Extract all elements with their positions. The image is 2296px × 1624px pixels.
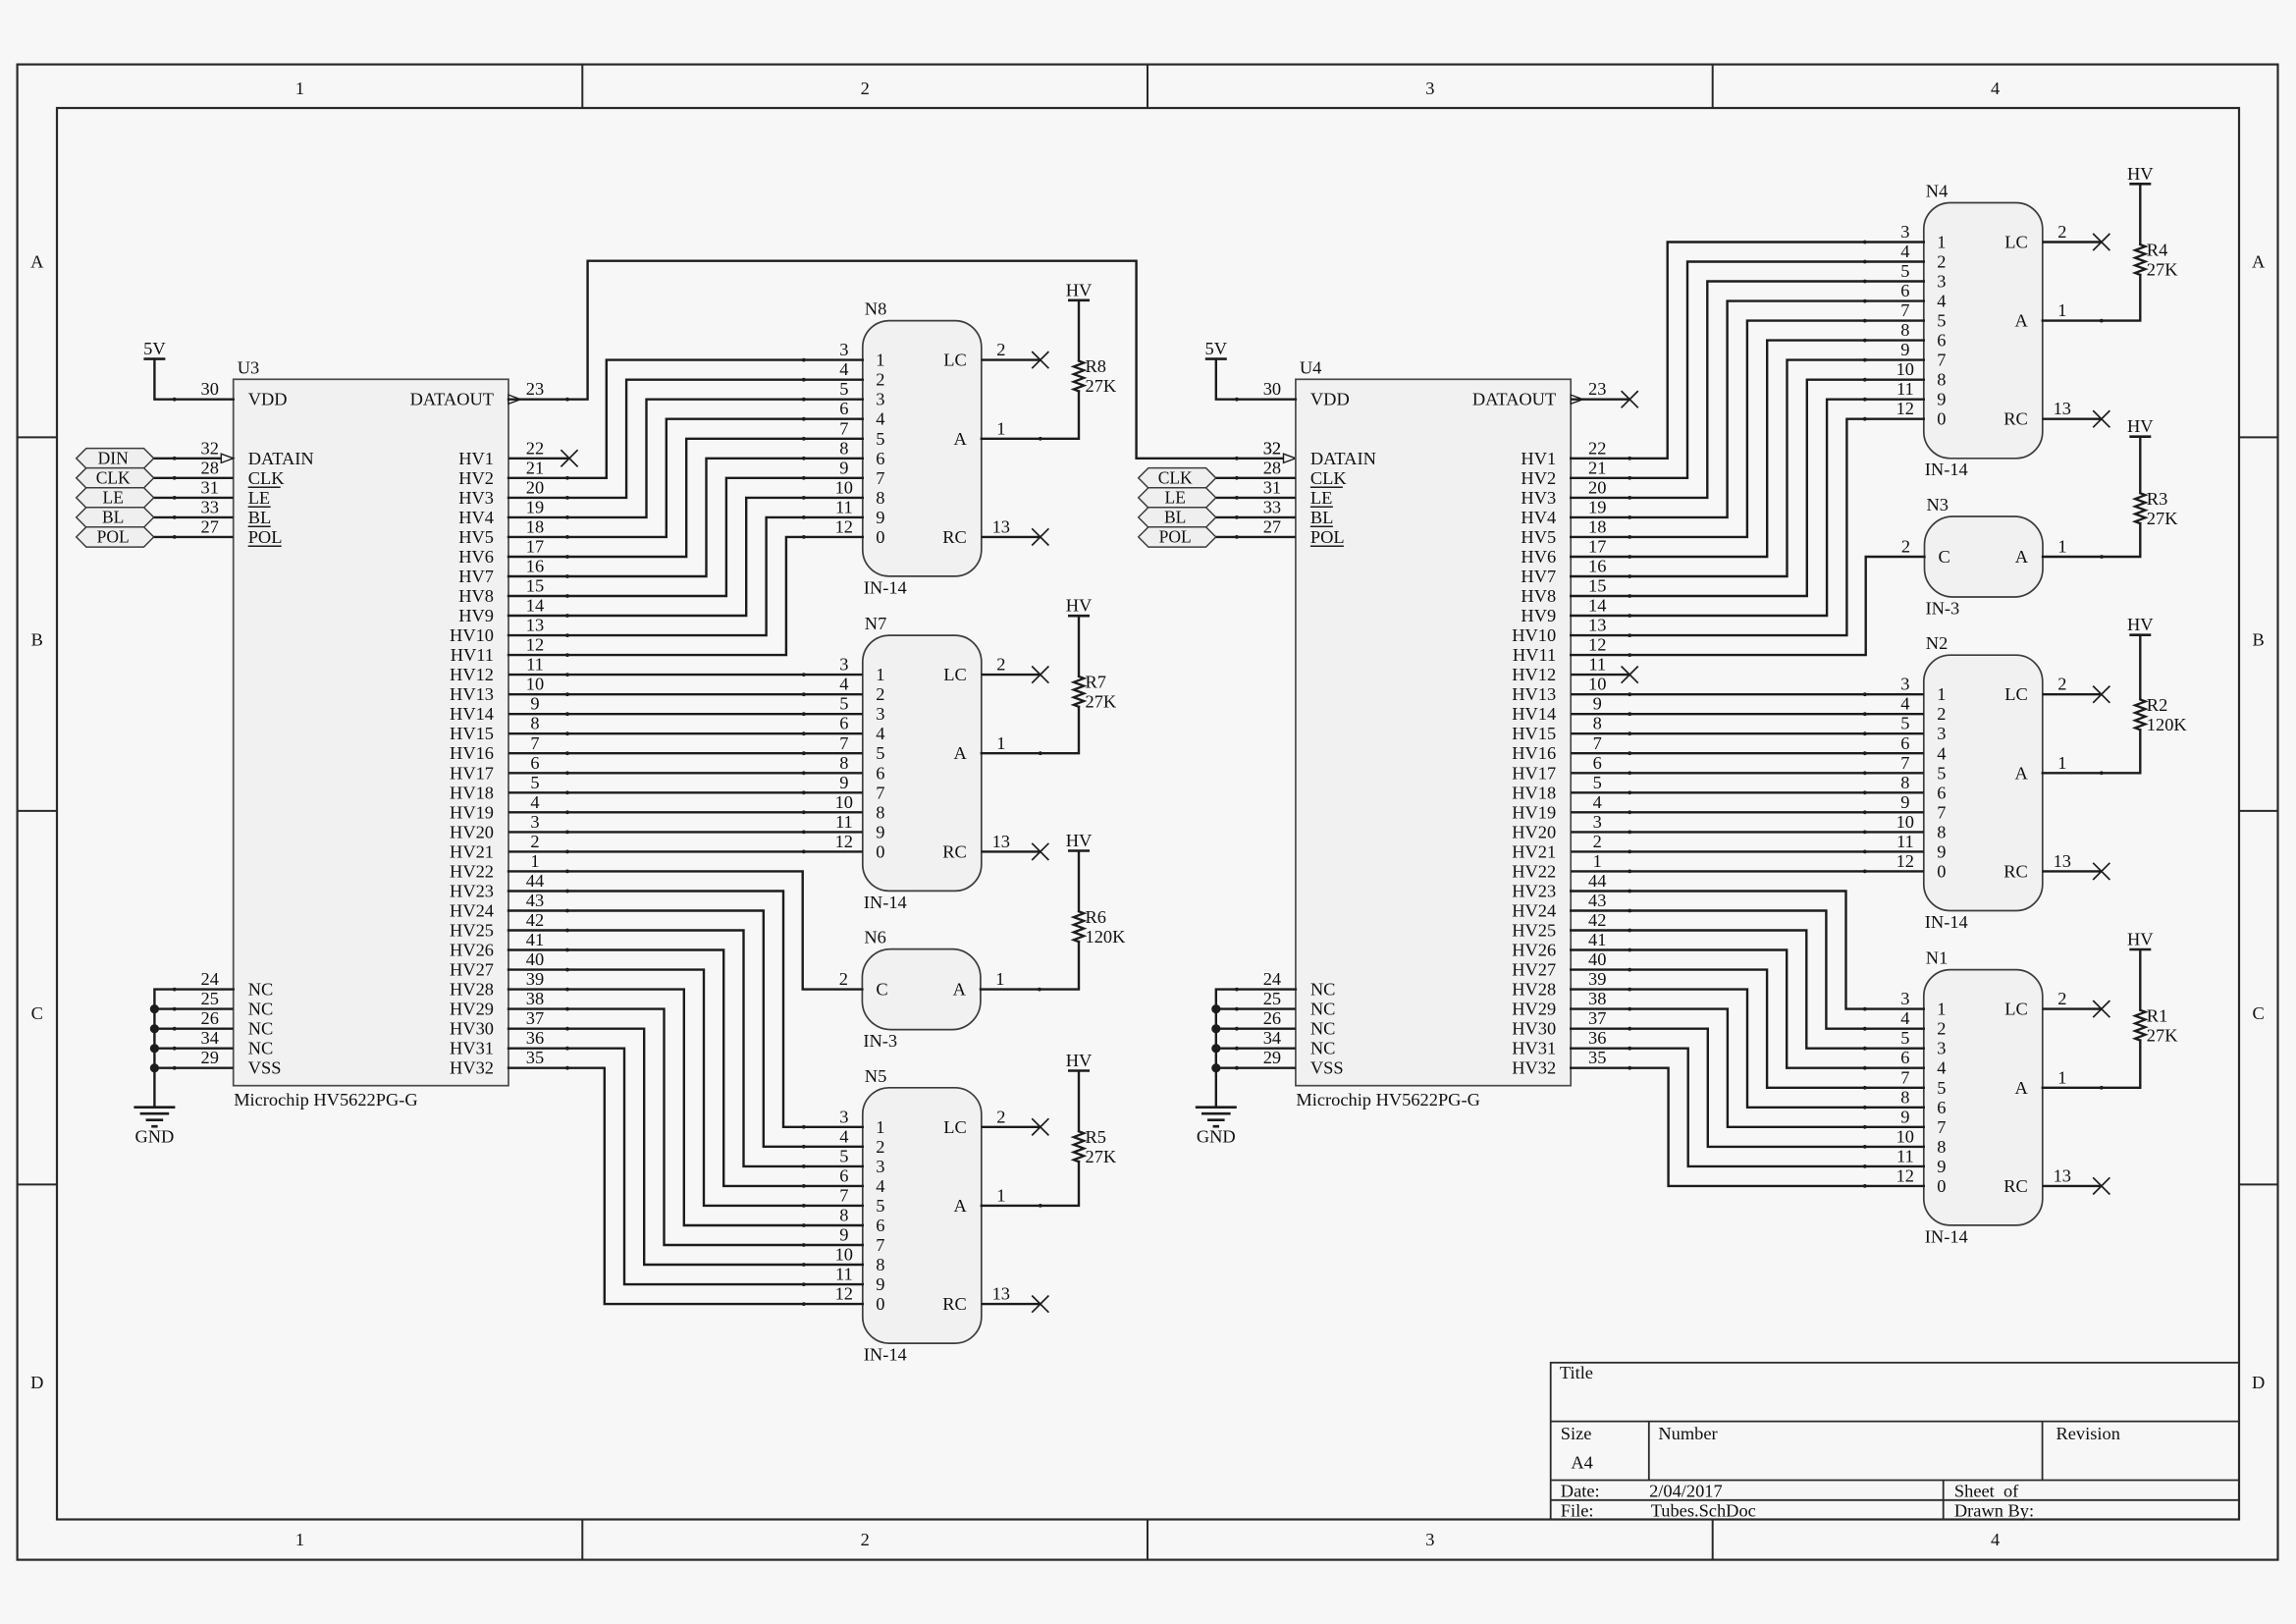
nixie tube N1 IN-14 body (1924, 970, 2043, 1225)
wire U4 HV17 to N2 cathode 7 (1571, 772, 1924, 774)
svg-text:HV29: HV29 (1512, 1000, 1556, 1019)
svg-text:U4: U4 (1300, 357, 1321, 377)
svg-text:8: 8 (876, 802, 884, 822)
svg-text:HV11: HV11 (451, 645, 494, 665)
svg-text:1: 1 (996, 1185, 1005, 1205)
svg-text:12: 12 (1588, 635, 1606, 655)
svg-text:5: 5 (1900, 1028, 1909, 1048)
svg-text:HV27: HV27 (450, 960, 494, 980)
svg-text:VSS: VSS (1310, 1058, 1344, 1078)
wire U4 HV29 to N1 cathode 9 (1571, 1009, 1924, 1127)
wire U3 HV10 to N8 cathode 11 (508, 517, 863, 635)
neon bulb N3 IN-3 body (1925, 516, 2044, 597)
svg-text:A: A (30, 251, 44, 271)
svg-text:HV1: HV1 (458, 449, 494, 468)
svg-text:D: D (30, 1373, 43, 1392)
svg-text:9: 9 (876, 508, 884, 527)
svg-text:BL: BL (102, 508, 124, 527)
svg-text:4: 4 (1937, 1058, 1946, 1078)
wire U4 HV31 to N1 cathode 11 (1571, 1049, 1924, 1166)
svg-text:14: 14 (526, 596, 544, 616)
svg-text:HV: HV (2127, 164, 2154, 184)
svg-text:21: 21 (526, 458, 544, 477)
wire R5 to N5 anode A (982, 1162, 1079, 1206)
wire LE port to U4 LE (1216, 497, 1296, 499)
svg-text:HV13: HV13 (1512, 684, 1556, 704)
svg-text:Sheet of: Sheet of (1954, 1481, 2019, 1500)
junction (150, 1063, 159, 1072)
svg-text:26: 26 (201, 1008, 219, 1028)
svg-text:3: 3 (1937, 724, 1946, 743)
svg-text:HV7: HV7 (1521, 567, 1556, 586)
svg-text:17: 17 (1588, 537, 1606, 557)
svg-text:13: 13 (992, 832, 1010, 851)
svg-text:7: 7 (839, 1185, 848, 1205)
ground symbol GND for U3 (133, 1106, 175, 1109)
svg-text:Microchip HV5622PG-G: Microchip HV5622PG-G (1296, 1090, 1479, 1110)
svg-text:13: 13 (526, 616, 544, 635)
svg-text:29: 29 (201, 1048, 219, 1067)
svg-text:N5: N5 (865, 1066, 886, 1086)
svg-text:37: 37 (1588, 1008, 1606, 1028)
svg-text:6: 6 (876, 449, 884, 468)
wire U3 HV14 to N7 cathode 5 (508, 713, 863, 715)
svg-text:POL: POL (1159, 527, 1192, 547)
svg-text:2: 2 (839, 969, 848, 989)
svg-text:7: 7 (876, 783, 884, 802)
neon bulb N6 IN-3 body (862, 949, 981, 1030)
svg-text:5: 5 (839, 694, 848, 714)
wire U4 HV32 to N1 cathode 12 (1571, 1068, 1924, 1186)
svg-text:27K: 27K (2147, 1025, 2178, 1045)
svg-text:HV25: HV25 (450, 921, 494, 941)
svg-text:1: 1 (1937, 684, 1946, 704)
wire POL port to U4 POL (1216, 536, 1296, 538)
wire U3 HV26 to N5 cathode 6 (508, 950, 863, 1186)
svg-text:6: 6 (530, 753, 539, 773)
svg-text:2: 2 (996, 340, 1005, 359)
wire U4 HV23 to N1 cathode 3 (1571, 892, 1924, 1009)
svg-text:3: 3 (530, 812, 539, 832)
svg-text:HV21: HV21 (450, 841, 494, 861)
svg-text:CLK: CLK (96, 468, 131, 488)
svg-text:HV: HV (1066, 1051, 1093, 1070)
svg-text:IN-3: IN-3 (1926, 599, 1960, 619)
svg-text:5: 5 (1593, 773, 1602, 792)
svg-text:9: 9 (530, 694, 539, 714)
svg-text:18: 18 (1588, 516, 1606, 536)
svg-text:IN-14: IN-14 (1925, 460, 1968, 479)
svg-text:HV9: HV9 (1521, 606, 1556, 625)
svg-text:POL: POL (97, 527, 130, 547)
svg-text:HV6: HV6 (458, 547, 494, 567)
wire R3 to N3 anode A (2043, 523, 2140, 557)
svg-text:HV10: HV10 (1512, 625, 1556, 645)
svg-text:3: 3 (1900, 675, 1909, 694)
wire U3 HV5 to N8 cathode 6 (508, 419, 863, 537)
svg-text:3: 3 (839, 340, 848, 359)
svg-text:38: 38 (1588, 989, 1606, 1008)
svg-text:35: 35 (1588, 1048, 1606, 1067)
svg-text:N7: N7 (865, 614, 886, 633)
svg-text:6: 6 (1900, 733, 1909, 753)
svg-text:3: 3 (1900, 222, 1909, 242)
svg-text:HV5: HV5 (458, 527, 494, 547)
svg-text:7: 7 (1900, 1067, 1909, 1087)
svg-text:1: 1 (876, 1117, 884, 1137)
svg-text:HV26: HV26 (450, 941, 494, 960)
svg-text:32: 32 (1263, 438, 1281, 458)
svg-text:NC: NC (1310, 1019, 1336, 1039)
wire U3 HV22 to N6 C (508, 871, 862, 989)
svg-text:8: 8 (1593, 714, 1602, 733)
wire LE port to U3 LE (154, 497, 234, 499)
svg-text:43: 43 (1588, 891, 1606, 910)
svg-text:7: 7 (1937, 802, 1946, 822)
nixie tube N7 IN-14 body (863, 635, 982, 891)
svg-text:29: 29 (1263, 1048, 1281, 1067)
svg-text:3: 3 (839, 655, 848, 675)
svg-text:C: C (31, 1003, 43, 1023)
wire U4 HV3 to N4 cathode 5 (1571, 282, 1924, 498)
wire U4 HV10 to N4 cathode 12 (1571, 419, 1924, 635)
wire U4 HV19 to N2 cathode 9 (1571, 811, 1924, 813)
wire R1 to N1 anode A (2043, 1041, 2141, 1088)
svg-text:0: 0 (876, 1294, 884, 1314)
svg-text:HV14: HV14 (450, 704, 494, 724)
svg-text:POL: POL (248, 527, 283, 547)
svg-text:5V: 5V (1205, 339, 1228, 358)
svg-text:11: 11 (1896, 1146, 1914, 1165)
svg-text:9: 9 (839, 1225, 848, 1245)
svg-text:3: 3 (839, 1107, 848, 1126)
svg-text:19: 19 (526, 497, 544, 516)
svg-text:HV31: HV31 (1512, 1039, 1556, 1058)
svg-text:5: 5 (876, 1196, 884, 1216)
svg-text:5: 5 (839, 1146, 848, 1165)
svg-text:HV9: HV9 (458, 606, 494, 625)
svg-text:6: 6 (1593, 753, 1602, 773)
svg-text:HV16: HV16 (1512, 743, 1556, 763)
wire U4 HV9 to N4 cathode 11 (1571, 400, 1924, 616)
wire U3 HV25 to N5 cathode 5 (508, 931, 863, 1166)
svg-text:8: 8 (876, 488, 884, 508)
port POL (77, 527, 154, 547)
svg-text:1: 1 (2057, 537, 2066, 557)
svg-text:8: 8 (1900, 320, 1909, 340)
svg-text:1: 1 (530, 851, 539, 871)
svg-text:HV: HV (1066, 831, 1093, 850)
svg-text:37: 37 (526, 1008, 544, 1028)
wire R4 to N4 anode A (2043, 275, 2141, 321)
svg-text:HV32: HV32 (1512, 1058, 1556, 1078)
svg-text:1: 1 (996, 733, 1005, 753)
svg-text:22: 22 (526, 438, 544, 458)
nixie tube N2 IN-14 body (1924, 655, 2043, 910)
svg-text:12: 12 (1896, 1165, 1914, 1185)
svg-text:120K: 120K (1086, 927, 1127, 947)
svg-text:9: 9 (1900, 1107, 1909, 1126)
svg-text:A: A (2015, 311, 2029, 331)
svg-text:IN-14: IN-14 (1925, 912, 1968, 932)
svg-text:30: 30 (201, 379, 219, 399)
svg-text:3: 3 (1900, 989, 1909, 1008)
svg-text:20: 20 (526, 477, 544, 497)
svg-text:4: 4 (876, 409, 884, 429)
svg-text:R3: R3 (2147, 489, 2167, 509)
svg-text:4: 4 (1593, 792, 1602, 812)
svg-text:0: 0 (876, 527, 884, 547)
resistor R3 27K (2139, 437, 2141, 494)
resistor R7 27K (1078, 616, 1080, 677)
svg-text:1: 1 (2057, 753, 2066, 773)
svg-text:13: 13 (992, 1284, 1010, 1304)
svg-text:C: C (2253, 1003, 2265, 1023)
svg-text:35: 35 (526, 1048, 544, 1067)
svg-text:5: 5 (530, 773, 539, 792)
wire U3 HV24 to N5 cathode 4 (508, 911, 863, 1147)
svg-text:HV24: HV24 (1512, 901, 1556, 921)
svg-text:HV15: HV15 (1512, 724, 1556, 743)
svg-text:12: 12 (526, 635, 544, 655)
svg-text:1: 1 (295, 1530, 304, 1549)
svg-text:8: 8 (1937, 370, 1946, 390)
wire U3 HV18 to N7 cathode 9 (508, 791, 863, 793)
svg-text:4: 4 (876, 1176, 884, 1196)
svg-text:HV8: HV8 (1521, 586, 1556, 606)
wire R6 to N6 anode A (981, 942, 1079, 990)
svg-text:2: 2 (2057, 222, 2066, 242)
wire U3 HV6 to N8 cathode 7 (508, 439, 863, 557)
svg-text:12: 12 (835, 832, 853, 851)
svg-text:HV17: HV17 (450, 763, 494, 783)
svg-text:8: 8 (530, 714, 539, 733)
svg-text:HV20: HV20 (450, 822, 494, 841)
svg-text:6: 6 (839, 1165, 848, 1185)
svg-text:39: 39 (526, 969, 544, 989)
svg-text:10: 10 (526, 675, 544, 694)
port LE (77, 488, 154, 508)
resistor R1 27K (2139, 949, 2141, 1010)
resistor R4 27K (2139, 184, 2141, 244)
svg-text:10: 10 (835, 792, 853, 812)
svg-text:B: B (2253, 629, 2265, 649)
svg-text:25: 25 (201, 989, 219, 1008)
svg-text:HV3: HV3 (1521, 488, 1556, 508)
wire U4 HV12 stub with no-connect X (1571, 674, 1629, 676)
svg-text:23: 23 (1588, 379, 1606, 399)
svg-text:8: 8 (876, 1255, 884, 1274)
port LE (U4) (1139, 488, 1216, 508)
svg-text:4: 4 (530, 792, 539, 812)
svg-text:HV26: HV26 (1512, 941, 1556, 960)
port BL (U4) (1139, 508, 1216, 527)
svg-text:7: 7 (1593, 733, 1602, 753)
svg-text:HV11: HV11 (1513, 645, 1556, 665)
wire U4 HV24 to N1 cathode 4 (1571, 911, 1924, 1029)
svg-text:R4: R4 (2147, 241, 2167, 260)
svg-text:10: 10 (835, 1245, 853, 1265)
svg-text:6: 6 (876, 763, 884, 783)
svg-text:10: 10 (835, 477, 853, 497)
wire U3 NC/VSS bus to ground (154, 990, 233, 1108)
svg-text:27K: 27K (2147, 260, 2178, 280)
svg-text:HV23: HV23 (450, 882, 494, 901)
svg-text:RC: RC (2003, 409, 2028, 429)
svg-text:HV6: HV6 (1521, 547, 1556, 567)
svg-text:LE: LE (248, 488, 270, 508)
svg-text:12: 12 (1896, 851, 1914, 871)
svg-text:34: 34 (201, 1028, 219, 1048)
svg-text:25: 25 (1263, 989, 1281, 1008)
wire U3 HV32 to N5 cathode 12 (508, 1068, 863, 1304)
svg-text:HV20: HV20 (1512, 822, 1556, 841)
svg-text:HV12: HV12 (1512, 665, 1556, 684)
junction (1211, 1063, 1220, 1072)
svg-text:34: 34 (1263, 1028, 1281, 1048)
wire U3 HV4 to N8 cathode 5 (508, 400, 863, 517)
svg-text:R1: R1 (2147, 1005, 2167, 1025)
svg-text:R2: R2 (2147, 695, 2167, 715)
svg-text:2: 2 (996, 1107, 1005, 1126)
svg-text:33: 33 (1263, 497, 1281, 516)
wire 5V to U4 VDD (1216, 359, 1296, 400)
svg-text:24: 24 (201, 969, 219, 989)
svg-text:HV23: HV23 (1512, 882, 1556, 901)
svg-text:HV29: HV29 (450, 1000, 494, 1019)
svg-text:LC: LC (943, 1117, 967, 1137)
svg-text:1: 1 (876, 665, 884, 684)
svg-text:HV28: HV28 (1512, 980, 1556, 1000)
junction (150, 1044, 159, 1053)
svg-text:0: 0 (1937, 861, 1946, 881)
svg-text:16: 16 (1588, 557, 1606, 576)
svg-text:31: 31 (201, 477, 219, 497)
svg-text:31: 31 (1263, 477, 1281, 497)
svg-text:N2: N2 (1926, 633, 1948, 653)
svg-text:24: 24 (1263, 969, 1281, 989)
svg-text:R5: R5 (1086, 1127, 1106, 1147)
svg-text:42: 42 (1588, 910, 1606, 930)
svg-text:4: 4 (839, 675, 848, 694)
wire U3 HV30 to N5 cathode 10 (508, 1029, 863, 1265)
svg-text:R6: R6 (1086, 907, 1106, 927)
wire U3 HV21 to N7 cathode 12 (508, 850, 863, 852)
svg-text:CLK: CLK (248, 468, 286, 488)
svg-text:38: 38 (526, 989, 544, 1008)
svg-text:D: D (2252, 1373, 2265, 1392)
svg-text:N8: N8 (865, 299, 886, 319)
svg-text:44: 44 (1588, 871, 1606, 891)
svg-text:N6: N6 (864, 928, 885, 947)
svg-text:5: 5 (876, 429, 884, 449)
wire U4 HV6 to N4 cathode 8 (1571, 341, 1924, 557)
svg-text:IN-14: IN-14 (864, 577, 907, 597)
svg-text:6: 6 (1937, 783, 1946, 802)
svg-text:0: 0 (1937, 1176, 1946, 1196)
svg-text:N4: N4 (1926, 182, 1948, 201)
wire R7 to N7 anode A (982, 707, 1079, 753)
svg-text:2: 2 (876, 684, 884, 704)
wire U3 HV27 to N5 cathode 7 (508, 970, 863, 1206)
svg-text:9: 9 (1593, 694, 1602, 714)
wire U4 NC pin to bus (1216, 1066, 1296, 1068)
svg-text:9: 9 (876, 1274, 884, 1294)
nixie tube N8 IN-14 body (863, 321, 982, 576)
svg-text:HV30: HV30 (1512, 1019, 1556, 1039)
svg-text:3: 3 (1593, 812, 1602, 832)
wire U4 HV26 to N1 cathode 6 (1571, 950, 1924, 1068)
svg-text:DATAIN: DATAIN (1310, 449, 1376, 468)
svg-text:A: A (2015, 1078, 2029, 1098)
svg-text:LE: LE (1310, 488, 1332, 508)
wire U4 HV22 to N2 cathode 12 (1571, 870, 1924, 872)
svg-text:LC: LC (943, 351, 967, 370)
wire U3 HV2 to N8 cathode 3 (508, 360, 863, 478)
svg-text:4: 4 (876, 724, 884, 743)
svg-text:2: 2 (996, 655, 1005, 675)
svg-text:3: 3 (1937, 1039, 1946, 1058)
svg-text:12: 12 (835, 1284, 853, 1304)
svg-text:Date:: Date: (1561, 1481, 1600, 1500)
title block (1551, 1363, 2239, 1520)
svg-text:HV4: HV4 (1521, 508, 1556, 527)
wire U4 HV7 to N4 cathode 9 (1571, 360, 1924, 576)
svg-text:A: A (954, 429, 968, 449)
svg-text:HV1: HV1 (1521, 449, 1556, 468)
svg-text:LC: LC (943, 665, 967, 684)
svg-text:HV16: HV16 (450, 743, 494, 763)
junction (1211, 1024, 1220, 1033)
port CLK (U4) (1139, 468, 1216, 488)
svg-text:HV5: HV5 (1521, 527, 1556, 547)
svg-text:IN-14: IN-14 (1925, 1226, 1968, 1246)
wire U4 NC/VSS bus to ground (1216, 990, 1296, 1108)
svg-text:HV25: HV25 (1512, 921, 1556, 941)
svg-text:41: 41 (1588, 930, 1606, 949)
svg-text:8: 8 (1937, 822, 1946, 841)
svg-text:R7: R7 (1086, 673, 1106, 692)
svg-text:2: 2 (530, 832, 539, 851)
wire U4 HV1 to N4 cathode 3 (1571, 243, 1924, 459)
wire U3 HV9 to N8 cathode 10 (508, 498, 863, 616)
svg-text:42: 42 (526, 910, 544, 930)
wire U4 HV5 to N4 cathode 7 (1571, 321, 1924, 537)
svg-text:NC: NC (248, 1039, 274, 1058)
svg-text:39: 39 (1588, 969, 1606, 989)
svg-text:HV21: HV21 (1512, 841, 1556, 861)
svg-text:HV19: HV19 (450, 802, 494, 822)
svg-text:HV2: HV2 (1521, 468, 1556, 488)
svg-text:A: A (953, 980, 967, 1000)
svg-text:2: 2 (876, 1137, 884, 1157)
svg-text:20: 20 (1588, 477, 1606, 497)
svg-text:27K: 27K (1086, 1147, 1117, 1166)
svg-text:NC: NC (1310, 1000, 1336, 1019)
svg-text:36: 36 (1588, 1028, 1606, 1048)
svg-text:4: 4 (1937, 743, 1946, 763)
svg-text:B: B (31, 629, 43, 649)
svg-text:23: 23 (526, 379, 544, 399)
svg-text:9: 9 (1900, 792, 1909, 812)
svg-text:6: 6 (1900, 1048, 1909, 1067)
svg-text:HV32: HV32 (450, 1058, 494, 1078)
svg-text:HV: HV (2127, 930, 2154, 949)
wire U4 HV15 to N2 cathode 5 (1571, 732, 1924, 734)
wire U3 HV1 stub with no-connect X (508, 458, 569, 460)
resistor R2 120K (2139, 635, 2141, 700)
svg-text:A4: A4 (1571, 1452, 1592, 1472)
